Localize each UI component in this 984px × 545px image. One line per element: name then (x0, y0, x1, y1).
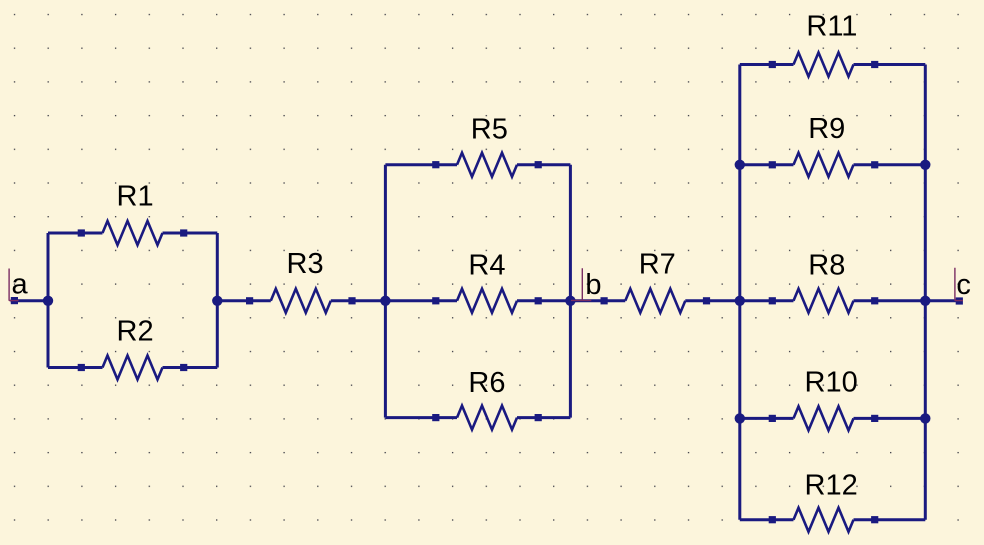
svg-text:R11: R11 (806, 11, 857, 43)
svg-text:R7: R7 (639, 249, 676, 281)
svg-text:R5: R5 (471, 113, 508, 145)
svg-text:R9: R9 (808, 113, 845, 145)
svg-text:R3: R3 (287, 248, 324, 280)
svg-text:c: c (956, 269, 971, 301)
svg-text:R12: R12 (805, 469, 858, 501)
svg-text:a: a (12, 268, 29, 300)
svg-text:R8: R8 (808, 250, 845, 282)
svg-text:R2: R2 (117, 315, 154, 347)
svg-text:b: b (585, 269, 601, 301)
svg-text:R4: R4 (468, 250, 505, 282)
svg-text:R10: R10 (805, 366, 858, 398)
svg-text:R6: R6 (468, 367, 505, 399)
svg-text:R1: R1 (117, 181, 154, 213)
